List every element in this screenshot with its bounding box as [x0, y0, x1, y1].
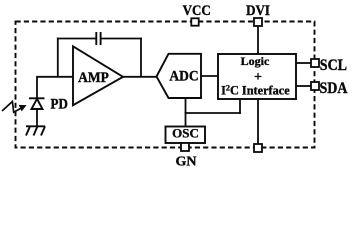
feedback wire right vertical — [140, 38, 142, 77]
pad SDA — [311, 82, 319, 90]
op-amp AMP — [73, 46, 123, 105]
wire amp input horizontal — [36, 76, 73, 78]
svg-text:SDA: SDA — [320, 80, 348, 97]
pad DVI — [254, 18, 262, 26]
svg-text:Logic: Logic — [241, 54, 270, 68]
oscillator OSC block — [166, 127, 206, 144]
svg-text:VCC: VCC — [183, 2, 211, 19]
wire ADC bottom to OSC — [185, 98, 187, 127]
wire OSC branch horizontal — [185, 112, 241, 114]
svg-text:PD: PD — [51, 96, 68, 112]
wire logic to SCL pad — [296, 62, 311, 64]
svg-text:I2C Interface: I2C Interface — [221, 84, 290, 98]
pad SCL — [311, 59, 319, 67]
pad VCC — [191, 18, 198, 25]
svg-text:ADC: ADC — [169, 68, 198, 85]
svg-text:AMP: AMP — [78, 69, 109, 86]
svg-text:DVI: DVI — [246, 2, 270, 19]
svg-text:GN: GN — [176, 154, 197, 169]
feedback wire left vertical — [57, 38, 59, 77]
ADC converter block — [157, 54, 202, 98]
dashed enclosure border — [16, 22, 315, 148]
wire PD bottom to ground — [36, 109, 38, 126]
wire PD top to amp input — [36, 77, 38, 99]
wire logic bottom to GND pad — [257, 99, 259, 144]
wire logic to SDA pad — [296, 85, 311, 87]
logic block U1 — [218, 54, 296, 99]
photodiode PD — [29, 98, 45, 109]
capacitor C1 — [96, 32, 100, 45]
feedback wire top right horizontal — [101, 38, 142, 40]
wire DVI to logic top — [257, 26, 259, 54]
svg-text:SCL: SCL — [320, 57, 347, 74]
wire logic bottom to OSC branch — [239, 99, 241, 114]
pad GND below OSC — [181, 143, 189, 151]
svg-text:OSC: OSC — [172, 125, 199, 140]
light arrow (photodiode illumination) — [2, 102, 21, 113]
wire amp output to ADC — [123, 76, 157, 78]
feedback wire top left horizontal — [57, 38, 96, 40]
ground — [26, 126, 45, 135]
wire ADC to logic — [201, 75, 218, 77]
pad unnamed bottom — [254, 144, 262, 152]
